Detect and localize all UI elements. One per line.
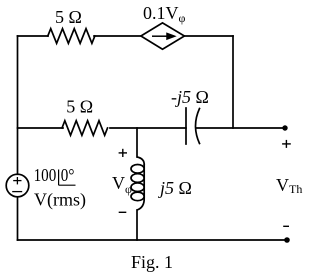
svg-text:0°: 0° [61,165,75,186]
svg-text:-j5 Ω: -j5 Ω [171,87,209,107]
svg-text:j5 Ω: j5 Ω [158,178,192,198]
svg-text:5 Ω: 5 Ω [55,7,82,27]
svg-text:V(rms): V(rms) [34,190,86,211]
svg-text:5 Ω: 5 Ω [66,97,93,117]
svg-text:Fig. 1: Fig. 1 [131,252,173,272]
svg-text:100: 100 [34,165,57,186]
